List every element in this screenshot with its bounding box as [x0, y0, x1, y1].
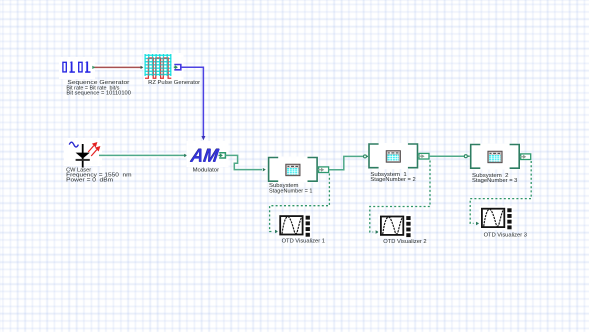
modulator body [187, 141, 229, 167]
subsystem 3 bracket frame [471, 145, 520, 169]
svg-text:Bit sequence = 10110100: Bit sequence = 10110100 [66, 91, 131, 97]
subsystem 1 body [268, 157, 319, 183]
wire: red electrical wire sequence generator to RZ pulse generator [92, 65, 144, 70]
subsystem 1 bracket frame [269, 158, 318, 182]
output port of subsystem 3 [520, 154, 530, 160]
svg-text:StageNumber = 2: StageNumber = 2 [370, 177, 415, 183]
wire: optical wire modulator to subsystem 1 [225, 155, 265, 171]
OTD visualizer 1 icon [280, 216, 310, 237]
sequence generator body [59, 57, 95, 79]
CW laser icon [69, 142, 99, 167]
svg-text:StageNumber = 1: StageNumber = 1 [269, 189, 313, 195]
wire: dashed monitor wire subsystem 2 to OTD visualizer 2 [370, 161, 430, 234]
svg-text:OTD Visualizer 3: OTD Visualizer 3 [484, 233, 527, 239]
wire: dashed monitor wire subsystem 3 to OTD visualizer 3 [470, 161, 531, 225]
svg-text:Power = 0 dBm: Power = 0 dBm [66, 177, 113, 183]
svg-text:OTD Visualizer 2: OTD Visualizer 2 [383, 239, 426, 245]
RZ pulse generator icon [145, 54, 171, 78]
output port of RZ pulse generator [174, 65, 181, 70]
subsystem 3 spreadsheet icon [488, 151, 502, 163]
OTD visualizer 3 body [479, 206, 513, 230]
junction node at subsystem 2 input [364, 155, 370, 158]
OTD visualizer 2 icon [381, 216, 411, 237]
wire: optical wire subsystem 1 to subsystem 2 [329, 156, 364, 169]
wire: dashed monitor wire subsystem 1 to OTD visualizer 1 [270, 174, 330, 234]
output port of subsystem 1 [318, 167, 328, 173]
CW laser body [64, 138, 102, 166]
svg-text:AM: AM [189, 146, 221, 167]
modulator icon AM [188, 146, 221, 167]
RZ pulse generator body [144, 53, 184, 81]
wire: optical wire CW laser to modulator [99, 153, 188, 157]
svg-text:RZ Pulse Generator: RZ Pulse Generator [148, 80, 200, 86]
wire: blue electrical wire RZ pulse generator to modulator [181, 67, 206, 140]
OTD visualizer 1 body [278, 214, 312, 238]
output port of subsystem 2 [419, 153, 429, 159]
subsystem 2 body [368, 143, 419, 169]
subsystem 1 spreadsheet icon [286, 164, 300, 176]
OTD visualizer 2 body [378, 214, 412, 238]
wire: optical wire subsystem 2 to subsystem 3 [429, 155, 464, 157]
svg-text:OTD Visualizer 1: OTD Visualizer 1 [282, 239, 325, 245]
output port of modulator [219, 153, 226, 158]
sequence generator icon 0101 [63, 62, 91, 73]
junction node at subsystem 3 input [464, 155, 470, 158]
subsystem 3 body [470, 144, 521, 170]
subsystem 2 spreadsheet icon [386, 151, 400, 163]
svg-text:Modulator: Modulator [193, 167, 220, 173]
subsystem 2 bracket frame [369, 144, 418, 168]
svg-text:StageNumber = 3: StageNumber = 3 [472, 178, 518, 184]
OTD visualizer 3 icon [482, 208, 512, 229]
